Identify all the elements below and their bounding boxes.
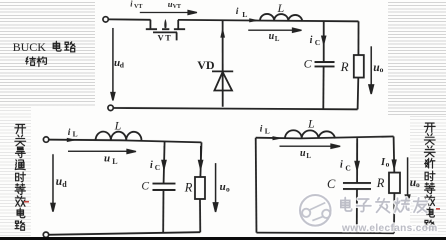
arrow i_L on rail: [67, 138, 77, 142]
transistor VT gate: [153, 32, 177, 40]
node: terminal bottom-left: [43, 232, 48, 237]
arrow i_C: [162, 146, 166, 169]
wire capacitor branch lower: [162, 190, 164, 233]
caption hanzi 结: [26, 57, 36, 66]
svg-text:d: d: [120, 60, 125, 69]
wire top rail left (terminal to VT drain): [108, 18, 150, 20]
watermark logo: [300, 195, 331, 226]
wire bottom rail: [256, 232, 394, 235]
diode VD symbol: [212, 71, 233, 90]
arrow i_L on rail: [272, 136, 283, 140]
svg-text:u: u: [104, 152, 110, 164]
svg-text:L: L: [265, 126, 270, 135]
arrow i_C (top): [322, 25, 326, 44]
svg-text:L: L: [114, 119, 122, 133]
svg-text:C: C: [155, 163, 160, 172]
wire bottom rail: [113, 108, 357, 109]
svg-text:u: u: [300, 148, 306, 159]
caption hanzi 电: [53, 41, 61, 51]
svg-text:L: L: [306, 152, 311, 160]
transistor VT substrate arrow: [164, 19, 166, 28]
node: input - terminal (bottom-left circle): [108, 105, 113, 110]
svg-text:i: i: [260, 125, 263, 135]
svg-text:L: L: [112, 157, 117, 166]
svg-text:L: L: [73, 130, 78, 139]
wire capacitor branch lower: [322, 67, 324, 109]
svg-text:i: i: [68, 128, 71, 138]
arrow on R branch (current down): [199, 146, 203, 169]
capacitor C1 plates: [315, 62, 335, 66]
svg-text:L: L: [275, 35, 280, 43]
svg-text:i: i: [130, 0, 133, 9]
wire right edge to R: [200, 142, 201, 177]
resistor R3 box: [389, 173, 400, 194]
wire right edge down to R: [357, 21, 359, 55]
arrow i_L on top rail: [249, 18, 259, 22]
inductor L3 (bottom-right): [285, 130, 335, 138]
svg-text:u: u: [269, 31, 275, 42]
ruled margin lines top-right: [388, 2, 446, 116]
inductor L2 (bottom-left): [96, 132, 142, 141]
left vertical caption 开关导通时等效电路: [15, 124, 26, 230]
wire bottom rail: [49, 232, 200, 235]
node: input + terminal (top-left circle): [103, 17, 108, 22]
svg-text:L: L: [242, 10, 247, 19]
svg-text:u: u: [220, 181, 226, 193]
arrow u_L (top): [248, 28, 301, 32]
caption hanzi 构: [37, 57, 46, 67]
ruled margin lines bottom-right: [410, 116, 446, 235]
resistor R2 box: [195, 177, 205, 199]
svg-text:VD: VD: [197, 58, 215, 72]
arrow u_VT: [140, 10, 197, 14]
wire capacitor branch upper: [323, 21, 325, 62]
svg-text:o: o: [386, 159, 390, 168]
svg-text:o: o: [226, 184, 230, 193]
svg-text:BUCK: BUCK: [13, 40, 47, 54]
svg-text:R: R: [376, 176, 385, 190]
svg-text:i: i: [340, 160, 343, 171]
svg-text:L: L: [307, 117, 315, 131]
capacitor C3 plates: [343, 183, 371, 189]
svg-text:d: d: [62, 180, 67, 189]
wire capacitor branch upper: [356, 138, 358, 183]
svg-text:C: C: [141, 180, 149, 192]
svg-text:C: C: [327, 177, 336, 191]
transistor Q VT body: [146, 20, 185, 29]
svg-text:R: R: [340, 59, 349, 74]
watermark 电子发烧友: [341, 198, 427, 213]
wire R to bottom rail: [199, 199, 201, 232]
svg-text:o: o: [380, 65, 384, 74]
svg-text:VT: VT: [158, 33, 173, 43]
resistor R1 box: [354, 55, 364, 78]
arrow u_d (input voltage): [111, 28, 115, 100]
inductor L1 (top): [260, 14, 302, 21]
arrow u_o (bottom-left output): [213, 163, 217, 212]
wire left edge: [255, 138, 258, 233]
arrow I_o on right edge: [392, 160, 396, 170]
black bottom edge bar: [0, 237, 446, 240]
ruled margin lines bottom-left: [0, 107, 31, 237]
svg-text:i: i: [150, 160, 153, 171]
arrow i_C: [355, 143, 359, 170]
red correction mark right: [436, 208, 440, 210]
right vertical caption 开关关断时等效电路: [424, 123, 435, 230]
wire top rail: [49, 140, 202, 143]
svg-text:L: L: [277, 1, 285, 15]
arrow on diode branch (current up): [220, 27, 225, 37]
wire top rail: [256, 136, 394, 138]
svg-text:VT: VT: [134, 4, 142, 10]
svg-text:C: C: [304, 57, 313, 71]
caption hanzi 路: [65, 42, 75, 52]
wire right edge to R: [393, 136, 396, 172]
svg-text:o: o: [416, 180, 420, 189]
svg-text:www.elecfans.com: www.elecfans.com: [341, 223, 438, 234]
wire R to bottom rail: [357, 78, 360, 110]
ruled margin lines top-left: [0, 2, 95, 107]
arrow u_L: [279, 144, 340, 148]
arrow u_d (bottom-left input): [51, 154, 55, 211]
svg-text:R: R: [184, 181, 193, 195]
arrow u_o (bottom-right output): [405, 157, 409, 204]
svg-text:i: i: [236, 7, 239, 17]
wire top rail VT to corner: [178, 20, 359, 21]
svg-text:C: C: [315, 38, 320, 47]
wire capacitor branch upper: [164, 141, 165, 183]
arrow u_L: [68, 149, 136, 153]
capacitor C2 plates: [152, 184, 175, 190]
wire capacitor branch lower: [356, 189, 358, 233]
wire diode branch: [222, 20, 224, 107]
svg-text:C: C: [345, 164, 350, 173]
node: terminal top-left: [43, 137, 48, 142]
arrow u_o (top, output voltage): [369, 46, 374, 94]
red correction mark left: [24, 201, 29, 203]
wire R to bottom rail: [393, 193, 395, 233]
svg-text:i: i: [310, 35, 313, 46]
svg-text:VT: VT: [173, 4, 181, 10]
